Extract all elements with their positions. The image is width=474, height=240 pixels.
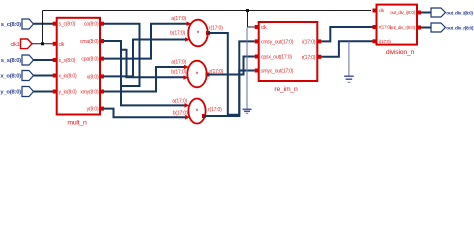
ground 2 xyxy=(344,41,354,82)
svg-text:cpsx_out(17:0): cpsx_out(17:0) xyxy=(261,55,292,61)
re_im pin smc_out xyxy=(255,69,259,73)
mult pin y xyxy=(100,107,104,111)
junction clk top xyxy=(246,9,249,12)
wire smy riser up to e2 a row xyxy=(104,67,184,92)
U3 a arrow xyxy=(185,103,190,108)
svg-text:cma(8:0): cma(8:0) xyxy=(80,39,99,45)
svg-text:b(17:0): b(17:0) xyxy=(170,31,185,37)
svg-text:s_c(8:0): s_c(8:0) xyxy=(59,22,76,28)
svg-text:r(17:0): r(17:0) xyxy=(209,26,223,32)
svg-text:x_o(8:0): x_o(8:0) xyxy=(0,74,21,80)
clk net riser xyxy=(42,11,44,44)
svg-text:x_in(8:0): x_in(8:0) xyxy=(59,74,78,80)
svg-text:out_div_i(8:0): out_div_i(8:0) xyxy=(446,10,473,16)
wire re_im i to division xyxy=(321,41,372,57)
svg-text:a(17:0): a(17:0) xyxy=(171,60,186,66)
svg-text:a(17:0): a(17:0) xyxy=(171,16,186,22)
mult pin cpa xyxy=(100,57,104,61)
wire sy down to e3 b row xyxy=(104,109,185,118)
U1 a arrow xyxy=(187,21,192,26)
clk net top run xyxy=(43,10,372,12)
svg-text:s_s(8:0): s_s(8:0) xyxy=(1,58,22,64)
U1 output pin xyxy=(206,31,210,35)
junction clk1 xyxy=(41,42,44,45)
wire so riser up to e1 b row xyxy=(104,40,185,77)
wire out_div_r xyxy=(421,27,431,29)
svg-text:division_n: division_n xyxy=(386,49,415,56)
wire jog to e2 b row xyxy=(121,50,184,78)
output port out_div_i xyxy=(431,8,473,17)
svg-text:r(17:0): r(17:0) xyxy=(208,107,222,113)
wire port y_o to mult xyxy=(34,91,54,93)
mult pin s_s xyxy=(53,58,57,62)
svg-text:clk1: clk1 xyxy=(11,42,20,48)
wire port s_c to mult xyxy=(34,23,54,25)
re_im pin cpsx_out xyxy=(255,55,259,59)
svg-text:r(17:0): r(17:0) xyxy=(302,55,316,61)
ground 1 xyxy=(243,28,252,113)
U3 b arrow xyxy=(185,115,190,120)
re_im pin i out xyxy=(317,55,321,59)
svg-text:out_div_r(8:0): out_div_r(8:0) xyxy=(390,25,416,31)
mult pin cma xyxy=(100,39,104,43)
wire re_im r to division xyxy=(321,27,372,41)
svg-text:y_in(8:0): y_in(8:0) xyxy=(59,90,78,96)
svg-text:mult_n: mult_n xyxy=(67,120,87,127)
U2 output pin xyxy=(206,73,210,77)
wire port x_o to mult xyxy=(34,75,54,77)
svg-text:i(17:0): i(17:0) xyxy=(302,39,316,45)
block re_im_n xyxy=(259,22,318,81)
mult pin x_in xyxy=(53,74,57,78)
svg-text:y_o(8:0): y_o(8:0) xyxy=(0,90,21,96)
svg-text:cpa(8:0): cpa(8:0) xyxy=(81,57,99,63)
U1 output wire xyxy=(208,33,255,115)
svg-text:*: * xyxy=(196,109,199,116)
svg-text:b(17:0): b(17:0) xyxy=(173,111,188,117)
svg-text:*: * xyxy=(196,72,199,79)
division pin clk xyxy=(373,9,377,13)
svg-text:s_c(8:0): s_c(8:0) xyxy=(1,22,22,28)
division pin r xyxy=(373,25,377,29)
input port s_s(8:0) xyxy=(1,55,34,65)
mult pin xmy xyxy=(100,90,104,94)
U2 output wire xyxy=(208,57,255,75)
wire clk1 to mult clk pin xyxy=(32,43,53,45)
svg-text:out_div_r(8:0): out_div_r(8:0) xyxy=(446,25,474,31)
svg-text:clk: clk xyxy=(261,25,267,31)
multiplier ellipse U1 xyxy=(188,20,208,47)
mult pin clk xyxy=(53,42,57,46)
input port y_o(8:0) xyxy=(0,87,33,97)
input port x_o(8:0) xyxy=(0,71,33,81)
U1 b arrow xyxy=(185,37,190,42)
U3 output wire xyxy=(204,71,255,117)
U2 b arrow xyxy=(184,75,189,80)
svg-text:co(8:0): co(8:0) xyxy=(84,22,99,28)
multiplier ellipse U3 xyxy=(188,99,205,124)
re_im pin r out xyxy=(317,39,321,43)
svg-text:out_div_i(8:0): out_div_i(8:0) xyxy=(390,10,416,16)
input port clk1 xyxy=(11,39,32,49)
svg-text:re_im_n: re_im_n xyxy=(274,86,298,93)
U3 output pin xyxy=(202,114,206,118)
svg-text:i(17:0): i(17:0) xyxy=(379,39,391,45)
multiplier ellipse U2 xyxy=(187,61,206,88)
svg-text:a(17:0): a(17:0) xyxy=(172,99,187,105)
svg-text:cmsy_out(17:0): cmsy_out(17:0) xyxy=(261,39,294,45)
input port s_c(8:0) xyxy=(1,19,34,29)
wire cpa riser up to e1 a row xyxy=(104,24,187,59)
wire port s_s to mult xyxy=(34,59,54,61)
wire co to riser xyxy=(104,24,140,86)
svg-text:y(8:0): y(8:0) xyxy=(87,107,99,113)
svg-text:x(8:0): x(8:0) xyxy=(87,74,99,80)
division pin out_div_r xyxy=(417,26,421,30)
svg-text:*: * xyxy=(197,31,200,38)
svg-text:smyc_out(17:0): smyc_out(17:0) xyxy=(261,69,294,75)
svg-text:clk: clk xyxy=(59,42,65,48)
mult pin x xyxy=(100,74,104,78)
mult pin s_c xyxy=(53,22,57,26)
mult pin y_in xyxy=(53,90,57,94)
mult pin co xyxy=(100,22,104,26)
re_im pin cmsy_out xyxy=(255,39,259,43)
division pin i xyxy=(373,39,377,43)
wire out_div_i xyxy=(421,12,431,14)
svg-text:s_s(8:0): s_s(8:0) xyxy=(59,58,76,64)
U2 a arrow xyxy=(184,65,189,70)
block mult_n xyxy=(57,18,100,115)
wire cma riser down to e3 a row xyxy=(104,41,185,105)
output port out_div_r xyxy=(431,23,474,32)
block division_n xyxy=(377,5,418,45)
division pin out_div_i xyxy=(417,11,421,15)
svg-text:b(17:0): b(17:0) xyxy=(171,70,186,76)
svg-text:xmy(8:0): xmy(8:0) xyxy=(80,90,99,96)
re_im pin clk xyxy=(255,25,259,29)
clk drop to re_im_n xyxy=(248,11,255,28)
